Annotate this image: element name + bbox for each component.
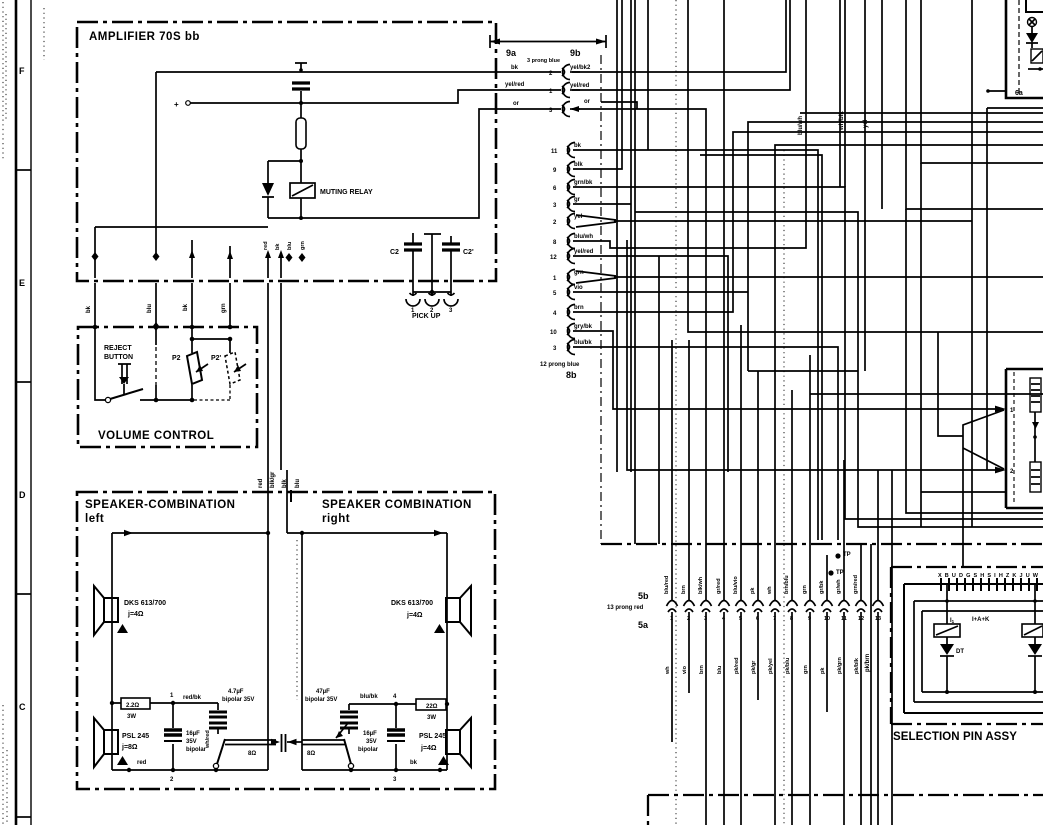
pin 1 arrow xyxy=(995,406,1006,413)
junction dot x95 xyxy=(93,325,98,330)
wire 5b pin13 feed xyxy=(877,470,879,600)
svg-text:16µF: 16µF xyxy=(186,731,200,737)
svg-text:pk/grn: pk/grn xyxy=(837,657,843,674)
svg-text:13: 13 xyxy=(875,616,881,622)
svg-text:blu/wh: blu/wh xyxy=(574,234,593,240)
svg-text:SELECTION PIN ASSY: SELECTION PIN ASSY xyxy=(893,731,1017,743)
wire drop x95 xyxy=(94,227,96,278)
svg-text:vio: vio xyxy=(682,665,688,674)
wire fuse to relay node xyxy=(300,149,302,183)
capacitor C2' xyxy=(450,236,452,278)
terminal diamond blu xyxy=(286,253,293,262)
svg-text:yel/red: yel/red xyxy=(574,249,594,255)
coil component xyxy=(1030,378,1041,412)
svg-text:bipolar 35V: bipolar 35V xyxy=(305,697,337,703)
resistor 2.2ohm 3W xyxy=(121,698,150,709)
svg-text:blu/bk: blu/bk xyxy=(360,694,378,700)
wire y332 drop to terminal box xyxy=(938,332,963,436)
capacitor C2 xyxy=(412,233,414,278)
wire 8b-6 grn/bk xyxy=(573,187,1043,519)
wire C2 lead down xyxy=(412,278,414,292)
inner dashed line xyxy=(1018,0,1020,93)
reject switch lever xyxy=(105,397,110,402)
svg-text:10: 10 xyxy=(824,616,830,622)
wire top rail to 9a pin2 xyxy=(156,71,561,73)
wire and node xyxy=(1028,68,1043,70)
svg-text:blu: blu xyxy=(295,479,301,488)
wire x987 riser xyxy=(987,108,1043,470)
svg-text:blu: blu xyxy=(287,242,293,250)
node +O junction xyxy=(299,101,303,105)
wire 5b pin11 feed xyxy=(843,460,845,600)
svg-text:bipolar: bipolar xyxy=(358,747,379,753)
wire 8b-1 grn xyxy=(614,276,1043,278)
svg-text:pk/blk: pk/blk xyxy=(854,657,860,674)
connector 5 pin 9 xyxy=(805,601,816,607)
svg-text:blk/wh: blk/wh xyxy=(698,576,704,594)
switch right wiper arrow xyxy=(336,723,348,738)
wire 8b-4 brn xyxy=(573,132,1043,312)
sheet border inner line xyxy=(30,0,32,825)
svg-text:1: 1 xyxy=(670,616,673,622)
sheet border outer line xyxy=(15,0,18,825)
wire y113 xyxy=(800,112,1043,114)
wire cluster red xyxy=(267,258,269,278)
svg-text:PSL 245: PSL 245 xyxy=(122,733,149,740)
bottom unit box border xyxy=(648,795,1043,825)
svg-text:12: 12 xyxy=(550,255,557,261)
wire relay bottom rail xyxy=(268,109,561,218)
svg-text:6: 6 xyxy=(756,616,759,622)
svg-text:red: red xyxy=(263,241,269,250)
terminal arrow x192 xyxy=(191,240,193,278)
wire node to diode branch xyxy=(268,160,301,162)
svg-text:brn: brn xyxy=(681,585,687,595)
wire +O to right step xyxy=(190,90,561,103)
left top arrow xyxy=(124,530,133,536)
svg-text:bk: bk xyxy=(183,303,189,311)
wire left drop x156 xyxy=(155,72,157,253)
harness boundary dash-dot vertical xyxy=(600,55,602,544)
control unit box edge xyxy=(1006,0,1043,98)
svg-text:bk: bk xyxy=(410,760,418,766)
scan noise dotted column xyxy=(3,2,44,825)
wire 9b-1 yel/red up xyxy=(572,0,790,90)
wire x921 y163 xyxy=(921,0,1043,163)
pickup pin 1 xyxy=(412,292,414,296)
fold line dash xyxy=(675,0,677,825)
junction xyxy=(1033,435,1037,439)
component cut at top xyxy=(1026,0,1043,12)
svg-text:F: F xyxy=(19,66,25,76)
svg-text:TP: TP xyxy=(836,570,844,576)
dimension line 9a-9b xyxy=(490,41,606,43)
svg-text:9: 9 xyxy=(808,616,811,622)
wire x853 top xyxy=(839,0,841,187)
centre divider (dash-dot) xyxy=(296,540,298,700)
svg-text:blk: blk xyxy=(574,162,583,168)
wire 8b-12 yel/red xyxy=(573,256,728,472)
pin comb xyxy=(941,578,1037,591)
node 1 xyxy=(171,701,175,705)
svg-text:C2': C2' xyxy=(463,249,474,256)
svg-text:8: 8 xyxy=(790,616,793,622)
wire x921 long xyxy=(920,163,922,527)
svg-text:wh: wh xyxy=(665,666,671,675)
terminal diamond grn xyxy=(299,253,306,262)
wire bk down to speaker box xyxy=(281,283,287,490)
harness boundary dash-dot horizontal xyxy=(601,543,1043,545)
connector 5 pin 11 xyxy=(839,601,850,607)
svg-text:pk/gr: pk/gr xyxy=(751,660,757,674)
connector 6a stub xyxy=(986,89,990,93)
wire blu to volume control xyxy=(155,283,157,327)
connector 5 pin 2 xyxy=(684,601,695,607)
svg-text:red: red xyxy=(258,478,264,488)
speaker combination box xyxy=(77,492,495,789)
node 4 xyxy=(394,702,398,706)
svg-text:gry/bk: gry/bk xyxy=(574,324,593,330)
wire x156 down (dashed mid) xyxy=(155,327,157,345)
svg-text:22Ω: 22Ω xyxy=(426,704,438,710)
relay I1 xyxy=(946,584,948,624)
svg-text:D: D xyxy=(19,490,26,500)
wire to pin2 of terminal box xyxy=(627,240,996,470)
speaker DKS right xyxy=(446,598,460,622)
svg-text:pk/yel: pk/yel xyxy=(768,658,774,674)
connector 5 pin 4 xyxy=(719,601,730,607)
wire C2' lead down xyxy=(450,278,452,292)
svg-text:P2': P2' xyxy=(211,355,222,362)
inner dashed xyxy=(1013,372,1015,505)
svg-text:grn: grn xyxy=(300,241,306,251)
wire red down to speaker box xyxy=(267,283,269,490)
P2 wiper arrow xyxy=(196,364,208,372)
wire P2' top xyxy=(229,339,231,353)
terminal T mark top xyxy=(295,63,307,71)
wire x95 down to switch xyxy=(95,327,105,400)
fuse F1 xyxy=(296,118,306,149)
wire y492 xyxy=(921,491,1006,493)
capacitor 16uF left xyxy=(172,703,174,770)
svg-text:12: 12 xyxy=(858,616,864,622)
pickup link rail xyxy=(413,291,451,293)
link connector bars xyxy=(282,734,286,752)
svg-text:red: red xyxy=(137,760,147,766)
terminal arrow x230 xyxy=(229,246,231,278)
svg-text:pk/blu: pk/blu xyxy=(785,658,791,674)
terminal box xyxy=(1006,369,1043,508)
fuse holder plates xyxy=(292,83,310,89)
svg-text:I1: I1 xyxy=(950,618,955,624)
svg-text:BUTTON: BUTTON xyxy=(104,354,133,361)
svg-text:P2: P2 xyxy=(172,355,181,362)
svg-text:yel/red: yel/red xyxy=(570,83,590,89)
wire x892 down xyxy=(891,470,893,825)
pickup pin 2 xyxy=(431,292,433,296)
svg-text:blk: blk xyxy=(282,479,288,488)
wire stair y212 xyxy=(635,0,1043,544)
svg-text:DKS 613/700: DKS 613/700 xyxy=(124,600,166,607)
connector 5 pin 3 xyxy=(701,601,712,607)
svg-text:vio: vio xyxy=(574,285,583,291)
mid wire left xyxy=(112,702,218,704)
relay I2 xyxy=(1034,584,1036,624)
connector 5 pin 6 xyxy=(753,601,764,607)
svg-text:wh/blk: wh/blk xyxy=(839,111,845,131)
svg-text:5b: 5b xyxy=(638,591,649,601)
svg-text:3: 3 xyxy=(704,616,707,622)
svg-text:j=4Ω: j=4Ω xyxy=(127,611,144,618)
wire long y332 xyxy=(688,0,1043,332)
pair link right xyxy=(302,740,345,745)
svg-text:or: or xyxy=(513,101,520,107)
svg-text:12 prong blue: 12 prong blue xyxy=(540,362,580,368)
svg-text:gr/red: gr/red xyxy=(716,578,722,594)
capacitor 4.7uF left xyxy=(217,703,219,710)
test point TP2 xyxy=(828,570,833,575)
wire 9b-2 yel/bk up xyxy=(572,0,786,72)
speaker PSL right xyxy=(446,730,460,754)
svg-text:4.7µF: 4.7µF xyxy=(228,689,244,695)
svg-text:35V: 35V xyxy=(366,739,377,745)
svg-text:5a: 5a xyxy=(638,620,649,630)
junction dot x230 xyxy=(228,325,233,330)
svg-text:left: left xyxy=(85,513,104,525)
svg-text:47µF: 47µF xyxy=(316,689,330,695)
bottom wire left xyxy=(112,769,268,771)
connector 5 pin 13 xyxy=(873,601,884,607)
svg-text:6a: 6a xyxy=(1015,90,1023,97)
fold line dash 2 xyxy=(783,150,785,825)
svg-text:j=4Ω: j=4Ω xyxy=(406,612,423,619)
wire 8b-8 blu/wh xyxy=(573,0,806,248)
wire 5b pin8 feed xyxy=(791,390,793,600)
capacitor 47uF right xyxy=(348,704,350,710)
svg-text:grn/red: grn/red xyxy=(853,575,859,594)
svg-text:PSL 245: PSL 245 xyxy=(419,733,446,740)
svg-text:blu/vio: blu/vio xyxy=(733,576,739,594)
svg-text:j=4Ω: j=4Ω xyxy=(420,745,437,752)
connector 5 pin 7 xyxy=(770,601,781,607)
muting relay coil xyxy=(290,183,315,198)
zone tick y381 xyxy=(17,381,31,383)
svg-text:red/bk: red/bk xyxy=(183,695,202,701)
svg-text:bk: bk xyxy=(511,65,519,71)
resistor 22ohm 3W xyxy=(416,699,446,710)
switch right xyxy=(348,763,353,768)
right inner rail x305 xyxy=(301,533,303,770)
svg-text:11: 11 xyxy=(551,149,558,155)
svg-text:DKS 613/700: DKS 613/700 xyxy=(391,600,433,607)
P2' wiper arrow xyxy=(234,364,246,372)
wire y394 xyxy=(810,393,1043,395)
wire 8b-5 vio xyxy=(573,122,1043,371)
svg-text:11: 11 xyxy=(841,616,847,622)
amplifier enclosure box xyxy=(77,22,496,281)
wire 5b pin12 feed xyxy=(860,545,862,600)
pair link left xyxy=(225,740,276,745)
svg-text:5: 5 xyxy=(739,616,742,622)
wire x845 top xyxy=(844,0,846,187)
wire cluster bk xyxy=(280,258,282,278)
speaker DKS left xyxy=(104,598,118,622)
svg-text:DT: DT xyxy=(956,649,964,655)
second rail linking pots xyxy=(192,338,230,340)
svg-text:AMPLIFIER 70S bb: AMPLIFIER 70S bb xyxy=(89,31,200,43)
svg-text:C2: C2 xyxy=(390,249,399,256)
wire 8b-11 bk xyxy=(573,150,818,540)
wire x902 y209 xyxy=(882,0,1043,209)
zone tick y169 xyxy=(17,169,31,171)
speaker PSL left xyxy=(104,730,118,754)
svg-text:E: E xyxy=(19,278,25,288)
svg-text:+: + xyxy=(174,100,179,109)
svg-text:gr/wh: gr/wh xyxy=(836,579,842,594)
svg-text:wh: wh xyxy=(767,586,773,595)
mid wire right xyxy=(349,703,418,705)
diode DT2 xyxy=(1034,637,1036,644)
svg-text:blk/gr: blk/gr xyxy=(270,471,276,488)
inner box 2 xyxy=(914,601,1043,702)
svg-text:bk: bk xyxy=(275,243,281,250)
svg-text:7: 7 xyxy=(773,616,776,622)
svg-text:8b: 8b xyxy=(566,370,577,380)
pin 2 arrow xyxy=(995,467,1006,474)
wire x871 down xyxy=(870,544,872,825)
svg-text:pk: pk xyxy=(750,587,756,594)
capacitor 16uF right xyxy=(395,704,397,770)
svg-text:yel: yel xyxy=(863,119,869,128)
wire fuse-holder to +O node xyxy=(300,91,302,118)
pickup pin 3 xyxy=(450,292,452,296)
lamp symbol xyxy=(1028,18,1037,27)
svg-text:brn: brn xyxy=(699,665,705,675)
wire 5b pin4 feed xyxy=(723,0,725,600)
left top wire xyxy=(112,532,268,534)
wire 5b pin9 feed xyxy=(809,355,811,600)
wire 5b pin2 feed xyxy=(688,340,690,600)
wire 8b-9 blk up xyxy=(573,0,622,472)
svg-text:SPEAKER-COMBINATION: SPEAKER-COMBINATION xyxy=(85,499,235,511)
junction diamond x156 xyxy=(153,322,160,331)
svg-text:blu/red: blu/red xyxy=(664,576,670,594)
wire grn to volume control xyxy=(229,283,231,327)
right top arrow xyxy=(434,530,443,536)
svg-text:or: or xyxy=(584,99,591,105)
svg-text:blu: blu xyxy=(717,666,723,674)
svg-text:TP: TP xyxy=(843,552,851,558)
svg-text:pk/brn: pk/brn xyxy=(865,653,871,672)
wire right feed x292 xyxy=(286,490,288,533)
svg-text:bk: bk xyxy=(86,305,92,313)
wire 8b-10 gry/bk to pin1 of terminal box xyxy=(573,331,996,409)
svg-text:10: 10 xyxy=(550,330,557,336)
connector 5 pin 8 xyxy=(787,601,798,607)
svg-text:9b: 9b xyxy=(570,48,581,58)
svg-text:grn: grn xyxy=(803,665,809,675)
bottom wire inside xyxy=(140,399,192,401)
svg-text:SPEAKER COMBINATION: SPEAKER COMBINATION xyxy=(322,499,472,511)
wire x902 long xyxy=(906,209,1043,513)
wire 5b pin10 feed xyxy=(826,555,828,600)
wire bk2 to volume control xyxy=(191,283,193,327)
diode DT1 xyxy=(946,637,948,644)
reject button plunger xyxy=(118,364,131,384)
svg-text:2.2Ω: 2.2Ω xyxy=(126,703,139,709)
wire inner rail y227 xyxy=(95,226,268,228)
wire 9b-3 or to 5b pin3 xyxy=(572,102,706,600)
svg-text:grn: grn xyxy=(221,303,227,313)
wire 5b pin5 feed xyxy=(740,325,742,600)
svg-text:brn: brn xyxy=(574,305,584,311)
zone tick y805 xyxy=(17,816,31,818)
left rail xyxy=(111,533,113,770)
bottom wire right xyxy=(302,769,447,771)
junction dot x192 xyxy=(190,325,195,330)
svg-text:grn/bk: grn/bk xyxy=(574,180,593,186)
wire 8b-3 gr up xyxy=(573,0,631,472)
svg-text:bipolar: bipolar xyxy=(186,747,207,753)
inner box 3 xyxy=(922,611,1043,692)
svg-text:13 prong red: 13 prong red xyxy=(607,605,644,611)
resistor component xyxy=(1030,462,1041,492)
wire P2 top xyxy=(191,327,193,353)
svg-text:8Ω: 8Ω xyxy=(307,751,315,757)
selection pin assy outer box xyxy=(891,567,1043,724)
wire 5b pin6 feed xyxy=(748,0,865,600)
diode D xyxy=(1026,33,1038,43)
test point TP1 xyxy=(835,553,840,558)
junction diamond x156 xyxy=(153,252,160,261)
svg-text:9a: 9a xyxy=(506,48,517,58)
wire 8b-2 yel xyxy=(614,0,972,527)
left inner rail x268 xyxy=(267,533,269,770)
svg-text:gr: gr xyxy=(574,197,581,203)
svg-text:grn: grn xyxy=(802,585,808,595)
svg-text:brn/blu: brn/blu xyxy=(784,575,790,594)
right top wire xyxy=(287,532,447,534)
svg-text:C: C xyxy=(19,702,26,712)
wire 5b pin1 feed xyxy=(671,340,673,600)
svg-text:2: 2 xyxy=(687,616,690,622)
svg-text:blu: blu xyxy=(147,304,153,313)
wire fan to pins xyxy=(963,410,1004,567)
connector 5 pin 5 xyxy=(736,601,747,607)
svg-text:j=8Ω: j=8Ω xyxy=(121,744,138,751)
wire bk to volume control xyxy=(94,283,96,327)
right rail x456 xyxy=(446,533,448,770)
relay K xyxy=(1031,49,1043,63)
connector 5 pin 10 xyxy=(822,601,833,607)
wire left feed x268 xyxy=(267,490,269,533)
volume control box xyxy=(78,327,257,447)
wire 5b pin7 feed xyxy=(775,145,1043,600)
svg-text:bk: bk xyxy=(574,143,582,149)
switch left xyxy=(213,763,218,768)
svg-text:bipolar 35V: bipolar 35V xyxy=(222,697,254,703)
connector 5 pin 1 xyxy=(667,601,678,607)
svg-text:3W: 3W xyxy=(127,714,136,720)
svg-text:8Ω: 8Ω xyxy=(248,751,256,757)
svg-text:35V: 35V xyxy=(186,739,197,745)
svg-text:blu/wh: blu/wh xyxy=(798,116,804,135)
junction diamond x95 xyxy=(92,252,99,261)
inner box 1 xyxy=(904,584,1043,713)
svg-text:3W: 3W xyxy=(427,715,436,721)
svg-text:REJECT: REJECT xyxy=(104,345,132,352)
svg-text:PICK UP: PICK UP xyxy=(412,313,441,320)
